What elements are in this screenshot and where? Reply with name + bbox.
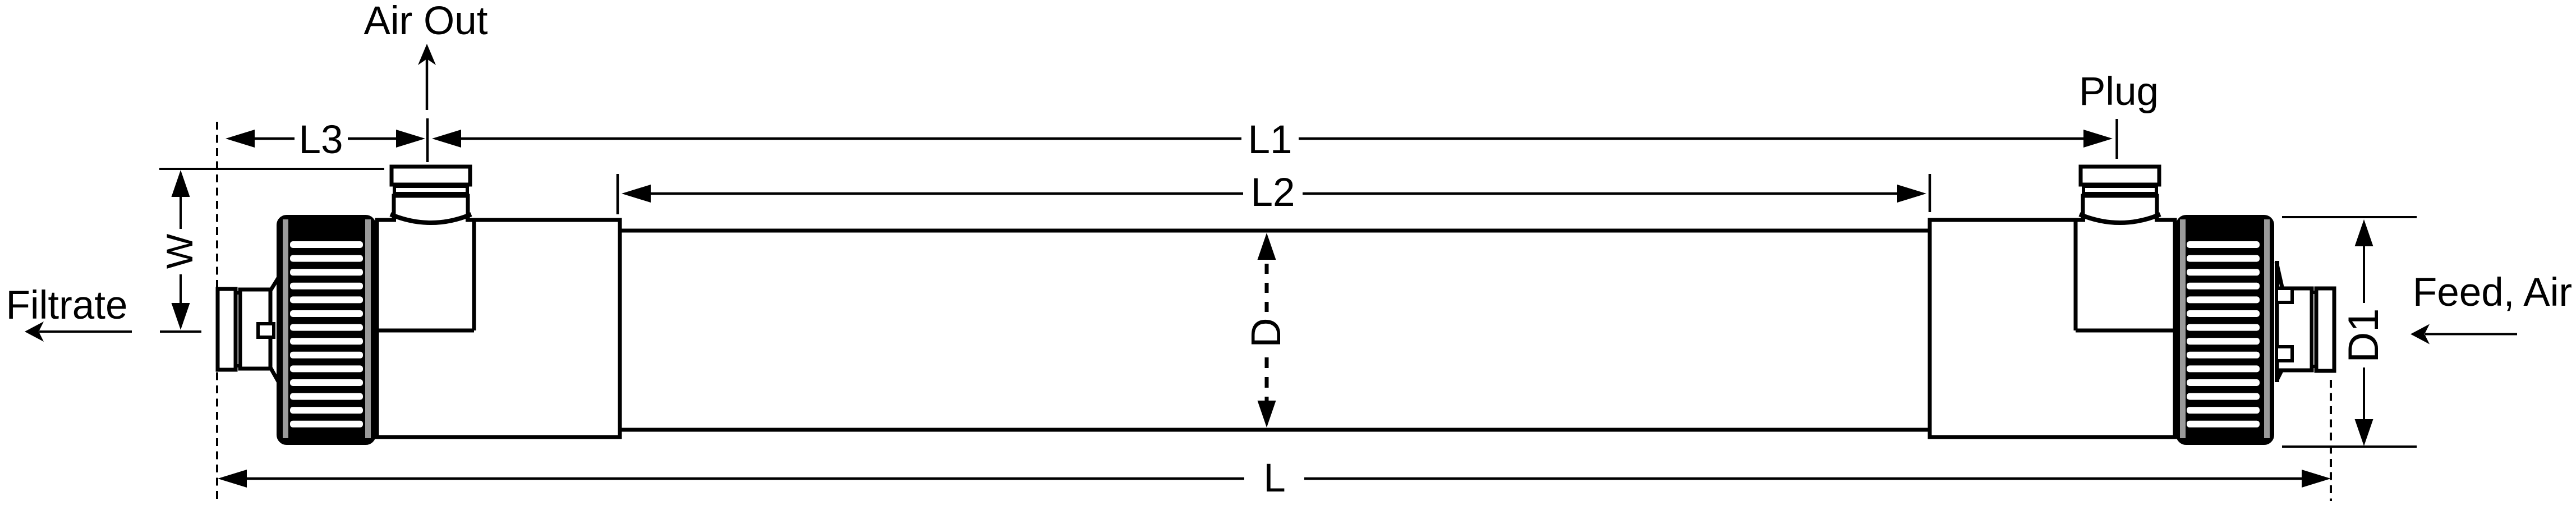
svg-text:W: W xyxy=(159,233,200,269)
svg-text:Plug: Plug xyxy=(2079,70,2159,114)
svg-text:D1: D1 xyxy=(2340,308,2388,362)
svg-text:Feed, Air: Feed, Air xyxy=(2413,270,2572,315)
svg-text:Filtrate: Filtrate xyxy=(6,283,128,328)
svg-text:L: L xyxy=(1263,456,1286,500)
svg-text:Air Out: Air Out xyxy=(364,0,488,43)
svg-text:L2: L2 xyxy=(1251,171,1295,215)
svg-text:D: D xyxy=(1243,318,1289,347)
svg-text:L1: L1 xyxy=(1248,118,1292,162)
svg-text:L3: L3 xyxy=(299,118,343,162)
